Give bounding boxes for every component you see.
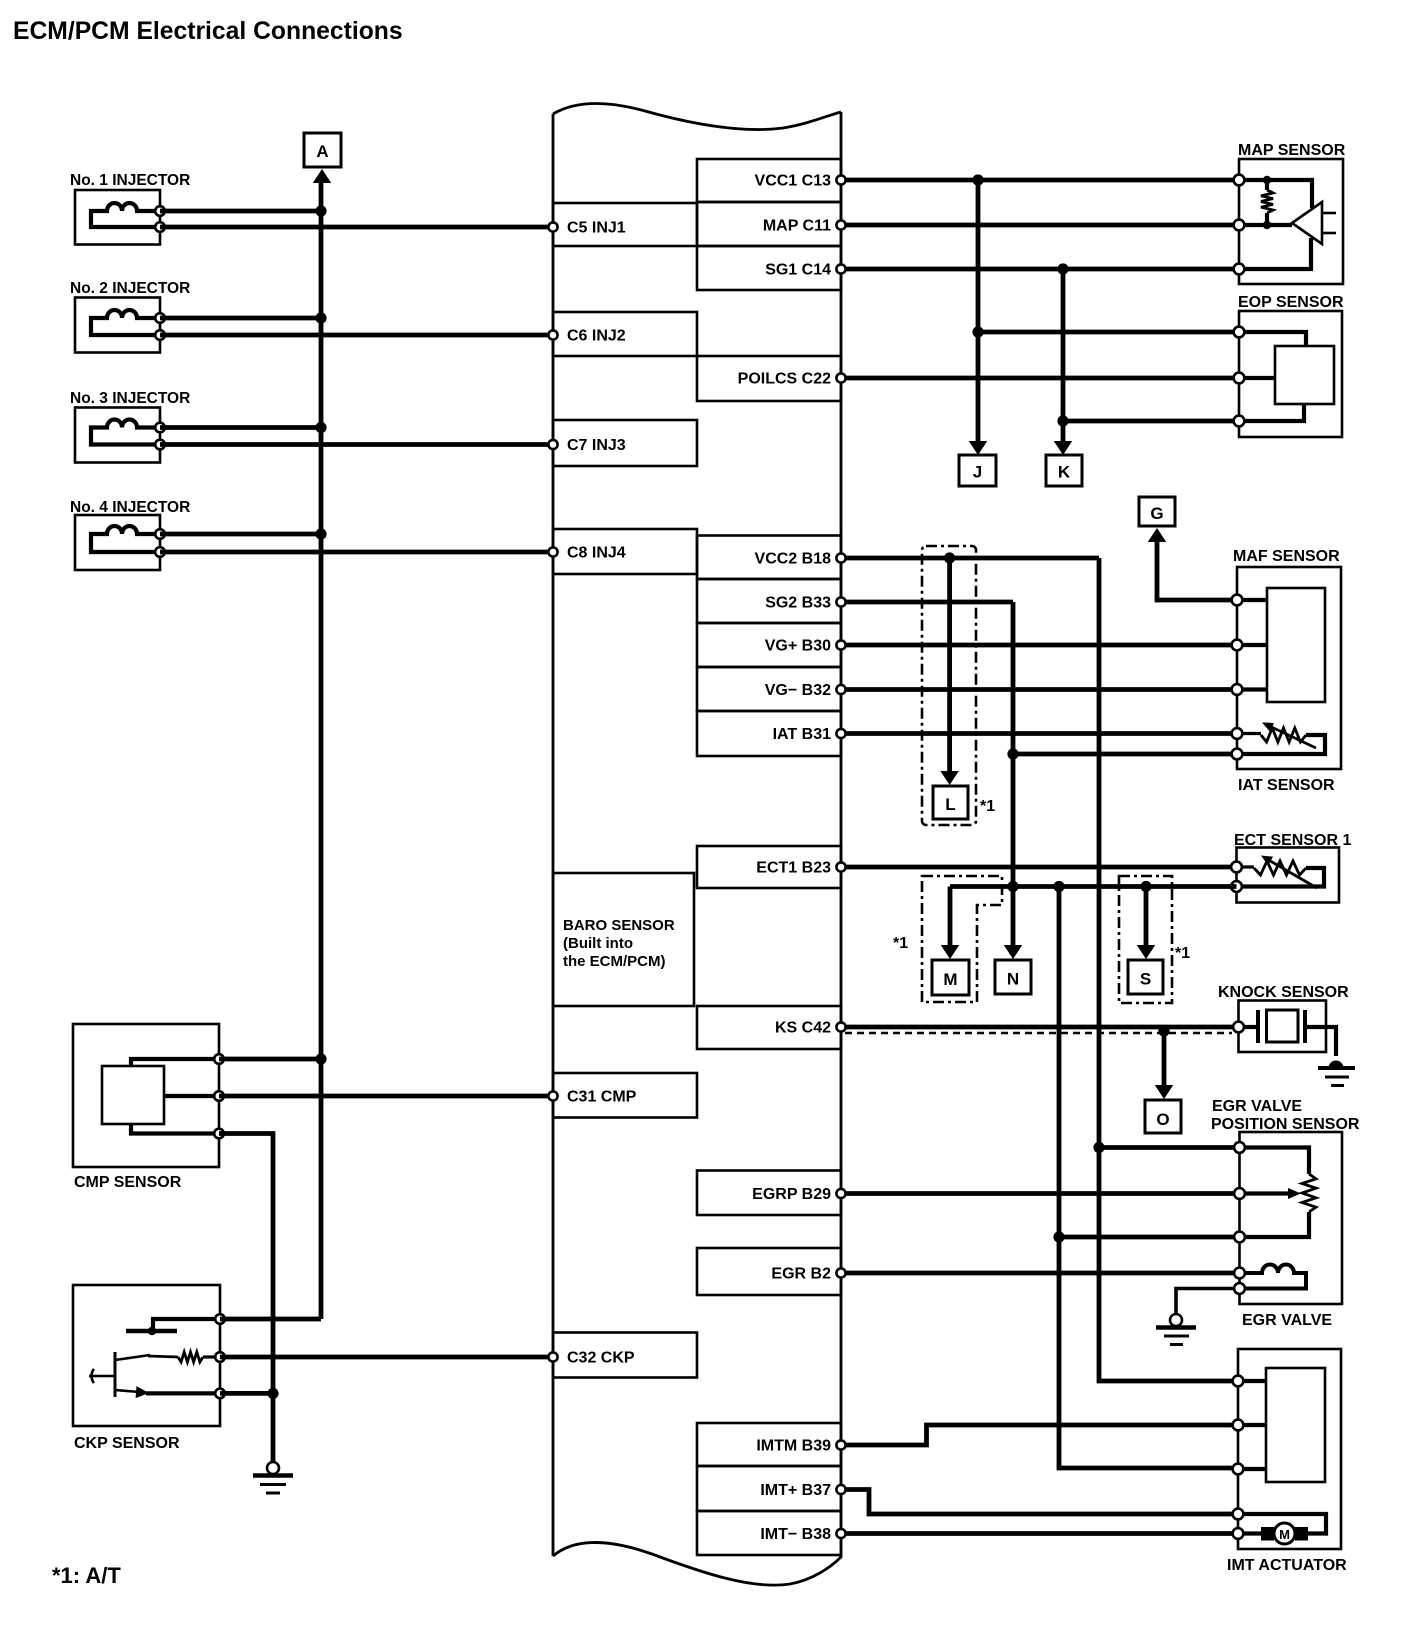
wire: injector 2 bottom pin to C6 INJ2 bbox=[160, 333, 553, 338]
junction dot J drop / EOP top row bbox=[972, 326, 983, 337]
wire: IAT B31 to MAF pin4 bbox=[841, 731, 1237, 736]
wire: VG- B32 to MAF pin3 bbox=[841, 687, 1237, 692]
wire: injector 1 top pin to A-line junction bbox=[160, 209, 321, 214]
wire: IMT+ B37 to IMT actuator pin4 (stepped) bbox=[841, 1490, 1238, 1515]
arrow up into connector G bbox=[1148, 528, 1167, 542]
ECM pin (right) at y=225 bbox=[836, 220, 845, 229]
wire: L drop from VCC2 row bbox=[947, 558, 952, 772]
arrow down into connector L bbox=[940, 771, 959, 785]
wire: IMTM B39 to IMT actuator pin2 (stepped) bbox=[841, 1425, 1238, 1445]
svg-text:BARO SENSOR: BARO SENSOR bbox=[563, 917, 675, 934]
ECM connector box ECT1 B23 bbox=[697, 846, 841, 888]
ECM pin (right) at y=689.5 bbox=[836, 685, 845, 694]
ECM connector box MAP C11 bbox=[697, 202, 841, 246]
wire: injector 3 top pin to A-line junction bbox=[160, 425, 321, 430]
wire: CKP pin1 to A-line (elbow) bbox=[220, 1317, 321, 1322]
svg-text:IAT SENSOR: IAT SENSOR bbox=[1238, 777, 1335, 794]
ECM pin (right) at y=269 bbox=[836, 264, 845, 273]
svg-text:KS C42: KS C42 bbox=[775, 1020, 831, 1037]
junction dot VCC1 row / J drop bbox=[972, 174, 983, 185]
ECM pin (left) at y=227 bbox=[548, 222, 557, 231]
CKP SENSOR (crankshaft position sensor) bbox=[73, 1285, 225, 1452]
wire: ECT1 B23 to ECT sensor pin1 bbox=[841, 865, 1237, 870]
wire: CMP pin3 to ground bus bbox=[219, 1134, 273, 1463]
ground symbol (knock sensor case ground) bbox=[1318, 1061, 1355, 1086]
svg-text:C8 INJ4: C8 INJ4 bbox=[567, 545, 626, 562]
svg-text:EGR VALVE: EGR VALVE bbox=[1212, 1098, 1302, 1115]
ECM connector box C32 CKP bbox=[553, 1333, 697, 1378]
ECM pin (right) at y=1193.5 bbox=[836, 1189, 845, 1198]
arrow down into connector J bbox=[969, 441, 988, 455]
ECM/PCM block (torn-edge body) bbox=[553, 103, 841, 1585]
CMP SENSOR (camshaft position sensor) bbox=[73, 1024, 224, 1191]
wire: EOP sensor pin3 row bbox=[1063, 419, 1239, 424]
dash-dot A/T container around S bbox=[1119, 876, 1172, 1003]
ECM connector box KS C42 bbox=[697, 1006, 841, 1049]
ECM pin (right) at y=1445 bbox=[836, 1440, 845, 1449]
svg-text:C31 CMP: C31 CMP bbox=[567, 1089, 637, 1106]
junction dot ground row / S drop bbox=[1140, 881, 1151, 892]
ECM connector box POILCS C22 bbox=[697, 356, 841, 401]
arrow down into connector M bbox=[941, 945, 960, 959]
wire: VCC1 C13 to MAP sensor pin1 bbox=[841, 178, 1239, 183]
svg-text:POSITION SENSOR: POSITION SENSOR bbox=[1211, 1116, 1360, 1133]
wire: injector 1 bottom pin to C5 INJ1 bbox=[160, 225, 553, 230]
ECM connector box VG+ B30 bbox=[697, 623, 841, 667]
ECM connector box C8 INJ4 bbox=[553, 529, 697, 574]
svg-text:*1: A/T: *1: A/T bbox=[52, 1563, 121, 1588]
svg-text:VG+ B30: VG+ B30 bbox=[765, 638, 831, 655]
connector M box bbox=[932, 960, 969, 995]
wire: O drop from shield bbox=[1162, 1031, 1167, 1087]
wire: CMP pin1 to A-line junction bbox=[219, 1057, 321, 1062]
connector K box bbox=[1046, 455, 1082, 486]
svg-text:M: M bbox=[943, 970, 957, 989]
injector coil No.3 (No. 3 INJECTOR) bbox=[70, 390, 190, 463]
junction dot on A-line at CMP pin1 bbox=[315, 1053, 326, 1064]
junction dot on ground bus at CKP pin3 bbox=[267, 1388, 278, 1399]
svg-text:K: K bbox=[1058, 463, 1071, 482]
wire: J drop from VCC1 row bbox=[976, 180, 981, 442]
svg-text:N: N bbox=[1007, 970, 1019, 989]
svg-text:VG− B32: VG− B32 bbox=[765, 682, 831, 699]
ground symbol (CMP/CKP shield ground) bbox=[253, 1462, 293, 1493]
connector J box bbox=[959, 455, 996, 486]
svg-text:*1: *1 bbox=[893, 935, 908, 952]
wire: CKP pin3 to ground bus junction bbox=[220, 1391, 273, 1396]
svg-text:CMP SENSOR: CMP SENSOR bbox=[74, 1174, 182, 1191]
connector A box bbox=[304, 133, 341, 167]
junction dot on A-line at injector 2 bbox=[315, 312, 326, 323]
svg-text:VCC2 B18: VCC2 B18 bbox=[755, 551, 832, 568]
EOP SENSOR (engine oil pressure sensor) bbox=[1234, 294, 1344, 437]
svg-text:J: J bbox=[973, 463, 982, 482]
junction dot VCC2 row / L drop bbox=[944, 552, 955, 563]
ECM connector box IMTM B39 bbox=[697, 1423, 841, 1466]
svg-text:No. 4 INJECTOR: No. 4 INJECTOR bbox=[70, 499, 190, 516]
ECM pin (right) at y=378 bbox=[836, 373, 845, 382]
junction dot SG1 row / K drop bbox=[1057, 263, 1068, 274]
ECM connector box EGR B2 bbox=[697, 1248, 841, 1295]
junction dot on A-line at injector 3 bbox=[315, 422, 326, 433]
svg-text:IMT− B38: IMT− B38 bbox=[760, 1526, 831, 1543]
arrow down into connector K bbox=[1054, 441, 1073, 455]
ground symbol (EGR valve ground) bbox=[1156, 1289, 1233, 1345]
MAF SENSOR with built-in IAT SENSOR (thermistor) bbox=[1232, 548, 1341, 794]
svg-text:KNOCK SENSOR: KNOCK SENSOR bbox=[1218, 984, 1349, 1001]
ECM connector box VCC2 B18 bbox=[697, 536, 841, 580]
svg-text:EOP SENSOR: EOP SENSOR bbox=[1238, 294, 1344, 311]
wire: VG+ B30 to MAF pin2 bbox=[841, 643, 1237, 648]
EGR VALVE POSITION SENSOR (potentiometer) and EGR VALVE solenoid coil bbox=[1211, 1098, 1360, 1329]
junction dot on A-line at injector 4 bbox=[315, 528, 326, 539]
ECM pin (left) at y=1357 bbox=[548, 1352, 557, 1361]
ECM pin (right) at y=1489.5 bbox=[836, 1485, 845, 1494]
svg-text:MAP SENSOR: MAP SENSOR bbox=[1238, 142, 1346, 159]
wire: injector 2 top pin to A-line junction bbox=[160, 316, 321, 321]
wire: VCC2 B18 row to 1099 drop bbox=[841, 556, 1099, 561]
wire: 1059 drop (sensor ground to EGR pot / IMT) bbox=[1059, 887, 1238, 1469]
injector coil No.2 (No. 2 INJECTOR) bbox=[70, 280, 190, 353]
wire: vertical bus A (injector/CMP/CKP power feed) bbox=[319, 181, 324, 1319]
injector coil No.4 (No. 4 INJECTOR) bbox=[70, 499, 190, 570]
ECM connector box VCC1 C13 bbox=[697, 159, 841, 202]
connector N box bbox=[995, 960, 1031, 994]
ECM connector box C7 INJ3 bbox=[553, 420, 697, 466]
svg-text:C7 INJ3: C7 INJ3 bbox=[567, 437, 626, 454]
ECM connector box IMT+ B37 bbox=[697, 1466, 841, 1511]
ECM pin (left) at y=552 bbox=[548, 547, 557, 556]
ECM pin (left) at y=444.5 bbox=[548, 440, 557, 449]
wire: IMT- B38 to IMT actuator motor bbox=[841, 1531, 1238, 1536]
ECT SENSOR 1 (engine coolant temperature thermistor) bbox=[1231, 832, 1351, 903]
svg-text:M: M bbox=[1279, 1527, 1290, 1542]
wire: injector 4 bottom pin to C8 INJ4 bbox=[160, 550, 553, 555]
dash-dot A/T container around M bbox=[922, 876, 1002, 1002]
svg-text:A: A bbox=[316, 142, 328, 161]
svg-text:No. 2 INJECTOR: No. 2 INJECTOR bbox=[70, 280, 190, 297]
ECM pin (left) at y=335 bbox=[548, 330, 557, 339]
svg-text:(Built into: (Built into bbox=[563, 935, 633, 952]
wire: KS C42 to knock sensor bbox=[841, 1025, 1239, 1030]
svg-text:C6 INJ2: C6 INJ2 bbox=[567, 328, 626, 345]
svg-text:No. 1 INJECTOR: No. 1 INJECTOR bbox=[70, 172, 190, 189]
svg-text:ECT1 B23: ECT1 B23 bbox=[756, 860, 831, 877]
junction dot K drop / EOP bottom row bbox=[1057, 415, 1068, 426]
ECM pin (right) at y=602 bbox=[836, 597, 845, 606]
ECM connector box VG- B32 bbox=[697, 667, 841, 711]
svg-text:SG1 C14: SG1 C14 bbox=[765, 262, 831, 279]
wire: CMP pin2 to C31 CMP bbox=[219, 1094, 553, 1099]
ECM pin (right) at y=733.5 bbox=[836, 729, 845, 738]
ECM BARO SENSOR note box (Built into the ECM/PCM) bbox=[553, 873, 694, 1006]
svg-text:VCC1 C13: VCC1 C13 bbox=[755, 173, 832, 190]
svg-text:C5 INJ1: C5 INJ1 bbox=[567, 220, 626, 237]
wire: EGRP B29 to EGR pot wiper bbox=[841, 1191, 1240, 1196]
wire: CKP pin2 to C32 CKP bbox=[220, 1355, 553, 1360]
svg-text:EGR B2: EGR B2 bbox=[771, 1266, 831, 1283]
arrow down into connector N bbox=[1004, 945, 1023, 959]
connector S box bbox=[1128, 960, 1163, 994]
ECM pin (left) at y=1096 bbox=[548, 1091, 557, 1100]
dash-dot A/T container around L bbox=[922, 546, 976, 825]
ECM pin (right) at y=1027 bbox=[836, 1022, 845, 1031]
wire: N drop vertical (sensor ground) bbox=[1011, 602, 1016, 947]
svg-text:IMT+ B37: IMT+ B37 bbox=[760, 1482, 831, 1499]
svg-text:CKP SENSOR: CKP SENSOR bbox=[74, 1435, 180, 1452]
junction dot 1059 drop / EGR pin3 row bbox=[1053, 1231, 1064, 1242]
wire: MAP C11 to MAP sensor pin2 bbox=[841, 223, 1239, 228]
wire: EOP sensor pin1 row bbox=[978, 330, 1239, 335]
svg-text:O: O bbox=[1156, 1110, 1169, 1129]
junction dot ground row / 1059 drop bbox=[1053, 881, 1064, 892]
svg-text:IMTM B39: IMTM B39 bbox=[756, 1438, 831, 1455]
junction dot shield / O drop bbox=[1158, 1025, 1169, 1036]
ECM pin (right) at y=867 bbox=[836, 862, 845, 871]
wire: MAF pin1 to G bbox=[1157, 540, 1237, 600]
svg-text:EGR VALVE: EGR VALVE bbox=[1242, 1312, 1332, 1329]
svg-text:MAF SENSOR: MAF SENSOR bbox=[1233, 548, 1340, 565]
injector coil No.1 (No. 1 INJECTOR) bbox=[70, 172, 190, 245]
wire: sensor ground row (M/N/S to ECT pin2) bbox=[950, 887, 1237, 948]
ECM connector box C5 INJ1 bbox=[553, 203, 697, 246]
ECM pin (right) at y=1533.5 bbox=[836, 1529, 845, 1538]
wire: SG2 B33 row to N drop bbox=[841, 600, 1013, 605]
svg-text:IAT B31: IAT B31 bbox=[773, 726, 831, 743]
wire: SG1 C14 to MAP sensor pin3 bbox=[841, 267, 1239, 272]
arrow up into connector A bbox=[313, 169, 332, 183]
ECM connector box EGRP B29 bbox=[697, 1171, 841, 1216]
wire: S drop bbox=[1144, 887, 1149, 948]
ECM pin (right) at y=645 bbox=[836, 640, 845, 649]
ECM pin (right) at y=180 bbox=[836, 175, 845, 184]
svg-text:ECM/PCM Electrical Connections: ECM/PCM Electrical Connections bbox=[13, 18, 403, 45]
wire: POILCS C22 to EOP sensor pin2 bbox=[841, 376, 1239, 381]
wire: MAF pin5 row (IAT return) bbox=[1013, 752, 1237, 757]
MAP SENSOR (manifold absolute pressure sensor) bbox=[1234, 142, 1346, 284]
svg-text:L: L bbox=[945, 795, 955, 814]
wire: 1099 drop (VCC2 to EGR pot / IMT) bbox=[1099, 558, 1238, 1381]
junction dot ground row / N drop bbox=[1007, 881, 1018, 892]
wire: injector 4 top pin to A-line junction bbox=[160, 532, 321, 537]
wire: EGR pot top row bbox=[1099, 1145, 1240, 1150]
shield (dashed) along KS wire bbox=[845, 1032, 1232, 1035]
arrow down into connector S bbox=[1137, 945, 1156, 959]
connector G box bbox=[1139, 497, 1175, 526]
svg-text:No. 3 INJECTOR: No. 3 INJECTOR bbox=[70, 390, 190, 407]
svg-text:SG2 B33: SG2 B33 bbox=[765, 595, 831, 612]
arrow down into connector O bbox=[1155, 1085, 1174, 1099]
junction dot 1099 drop / EGR pin1 row bbox=[1093, 1142, 1104, 1153]
svg-text:the ECM/PCM): the ECM/PCM) bbox=[563, 953, 666, 970]
ECM connector box C6 INJ2 bbox=[553, 312, 697, 356]
wire: K drop from SG1 row bbox=[1061, 269, 1066, 442]
ECM pin (right) at y=558 bbox=[836, 553, 845, 562]
junction dot on A-line at injector 1 bbox=[315, 205, 326, 216]
ECM connector box IMT- B38 bbox=[697, 1511, 841, 1555]
svg-text:C32 CKP: C32 CKP bbox=[567, 1350, 635, 1367]
svg-text:MAP C11: MAP C11 bbox=[763, 218, 831, 235]
wire: EGR B2 to EGR valve coil bbox=[841, 1271, 1240, 1276]
svg-text:*1: *1 bbox=[980, 798, 995, 815]
svg-text:S: S bbox=[1140, 970, 1151, 989]
ECM connector box SG2 B33 bbox=[697, 579, 841, 623]
KNOCK SENSOR (piezo element) bbox=[1218, 984, 1349, 1056]
svg-text:EGRP B29: EGRP B29 bbox=[752, 1186, 831, 1203]
connector L box bbox=[933, 786, 968, 819]
junction dot N drop / MAF IAT- row bbox=[1007, 748, 1018, 759]
ECM pin (right) at y=1273 bbox=[836, 1268, 845, 1277]
ECM connector box C31 CMP bbox=[553, 1073, 697, 1118]
svg-text:*1: *1 bbox=[1175, 945, 1190, 962]
wire: EGR pot bottom row bbox=[1059, 1235, 1240, 1240]
svg-text:G: G bbox=[1150, 504, 1163, 523]
ECM connector box IAT B31 bbox=[697, 711, 841, 756]
connector O box bbox=[1145, 1100, 1181, 1133]
ECM connector box SG1 C14 bbox=[697, 246, 841, 290]
svg-text:POILCS C22: POILCS C22 bbox=[738, 371, 831, 388]
svg-text:IMT ACTUATOR: IMT ACTUATOR bbox=[1227, 1557, 1347, 1574]
IMT ACTUATOR (intake manifold tuning motor) bbox=[1227, 1349, 1347, 1574]
wire: injector 3 bottom pin to C7 INJ3 bbox=[160, 442, 553, 447]
